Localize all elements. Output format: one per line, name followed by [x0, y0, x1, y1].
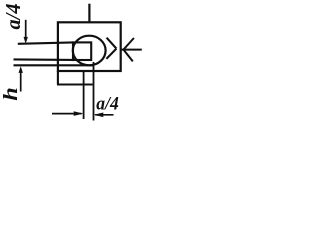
- check arrow upper wing: [107, 38, 117, 49]
- svg-text:a/4: a/4: [1, 3, 25, 29]
- fork upper branch: [124, 38, 134, 50]
- line D lower ledge: [57, 83, 93, 85]
- line C: [14, 64, 94, 66]
- arrowhead left (bottom dim): [94, 113, 104, 118]
- fork lower branch: [124, 50, 133, 62]
- check arrow lower wing: [106, 49, 116, 59]
- outer square body: [58, 22, 121, 71]
- right pin: [121, 49, 142, 51]
- dim h shaft: [20, 69, 22, 92]
- svg-text:a/4: a/4: [96, 94, 119, 115]
- arrowhead down (a/4 top): [24, 37, 28, 44]
- dim bottom left arrow line: [52, 113, 82, 115]
- svg-text:h: h: [0, 87, 22, 101]
- arrowhead right (bottom dim): [74, 111, 84, 116]
- line A upper left pipe: [18, 42, 73, 43]
- dim bottom right arrow line: [95, 114, 113, 116]
- arrowhead up (h): [19, 66, 23, 73]
- dim a/4 top shaft: [25, 20, 27, 41]
- small square in circle: [73, 42, 91, 60]
- extension line 2: [93, 62, 95, 121]
- line B: [14, 58, 74, 61]
- circle: [73, 36, 106, 66]
- left edge prolongation: [57, 71, 59, 85]
- top pin: [88, 4, 90, 23]
- extension line 1: [83, 71, 85, 119]
